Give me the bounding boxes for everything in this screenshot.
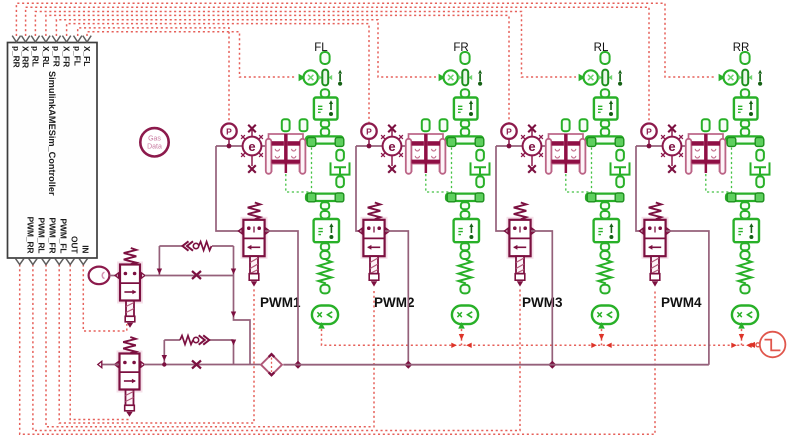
svg-text:PWM_RR: PWM_RR: [26, 217, 36, 254]
svg-text:FL: FL: [314, 42, 328, 54]
junction return line: [548, 361, 556, 369]
wire PWM3 outlet to return line: [531, 231, 552, 365]
wheel station FL green chain: [299, 52, 350, 329]
check valve CV2: [180, 336, 193, 345]
wire V2 tank port: [103, 364, 120, 366]
arrow loop1 right: [231, 269, 236, 275]
svg-text:RR: RR: [733, 42, 750, 54]
wire speed branch RL: [601, 329, 603, 345]
accumulator: [89, 267, 110, 285]
filter: [261, 354, 282, 375]
wire controller-top to X_RL sensor: [35, 12, 576, 78]
wire V2 outlet loop: [144, 340, 260, 365]
svg-text:SimulinkAMESim_Controller: SimulinkAMESim_Controller: [47, 71, 57, 196]
pump unit RL (P gauge, motor, master cylinder): [496, 119, 591, 192]
solenoid valve PWM3: [504, 203, 535, 287]
svg-text:FR: FR: [453, 42, 468, 54]
junction speed bus: [599, 334, 604, 340]
controller block SimulinkAMESim_Controller: [8, 36, 98, 265]
wire controller-top to p_FL gauge: [78, 28, 229, 123]
pump unit RR (P gauge, motor, master cylinder): [636, 119, 731, 192]
solenoid valve PWM4: [639, 203, 670, 287]
wire controller-bottom to PWM4 coil: [20, 265, 655, 435]
junction return line: [404, 361, 412, 369]
svg-text:p_FL: p_FL: [73, 46, 83, 66]
throttle X1: [192, 271, 201, 279]
svg-text:PWM4: PWM4: [661, 295, 702, 310]
svg-text:p_RL: p_RL: [30, 46, 40, 67]
svg-text:PWM_FL: PWM_FL: [59, 218, 69, 253]
svg-text:Data: Data: [147, 144, 162, 151]
signal source vehicle speed: [748, 342, 755, 348]
svg-text:X_FL: X_FL: [82, 46, 92, 66]
arrow loop2: [231, 340, 236, 346]
svg-text:p_RR: p_RR: [11, 46, 21, 68]
junction return line: [294, 361, 302, 369]
wheel station FR green chain: [439, 52, 490, 329]
wire controller-bottom to brake valve V1 coil: [83, 265, 127, 332]
pump unit FL (P gauge, motor, master cylinder): [216, 119, 311, 192]
wire PWM2 outlet to return line: [385, 231, 408, 365]
wire controller-bottom to PWM3 coil: [33, 265, 520, 431]
check valve CV1: [183, 241, 194, 250]
arrow jog: [231, 312, 236, 318]
svg-text:Gas: Gas: [148, 136, 161, 143]
wire speed branch FR: [461, 329, 463, 345]
svg-text:X_RL: X_RL: [41, 46, 51, 67]
wheel station RL green chain: [579, 52, 630, 329]
svg-text:IN: IN: [81, 245, 91, 253]
svg-text:PWM1: PWM1: [260, 295, 301, 310]
junction speed bus: [739, 334, 744, 340]
pressure valve V2: [115, 337, 145, 417]
throttle X2: [192, 361, 201, 369]
gas properties icon Gas Data: [140, 128, 168, 156]
wire accumulator to valve V1: [110, 275, 120, 277]
wire controller-top to X_RR sensor: [16, 3, 716, 77]
wire controller-bottom to brake valve V2 coil: [70, 265, 129, 420]
wire pump feed to PWM3: [496, 146, 509, 231]
wheel station RR green chain: [719, 52, 770, 329]
wire V1 outlet loop: [145, 246, 234, 276]
wire speed branch RR: [741, 329, 743, 345]
wire controller-top to p_RL gauge: [46, 15, 509, 122]
solenoid valve PWM1: [238, 203, 269, 287]
wire loop1 to filter: [234, 276, 251, 365]
wire PWM1 outlet to return line: [265, 231, 298, 365]
wire controller-top to X_FR sensor: [56, 20, 436, 77]
junction speed bus: [459, 334, 464, 340]
wire controller-top to p_FR gauge: [67, 24, 369, 123]
arrow loop1 left: [157, 269, 162, 275]
wire pump feed to PWM1: [216, 146, 243, 231]
wire pump feed to PWM4: [636, 146, 644, 231]
wire controller-top to X_FL sensor: [87, 32, 296, 77]
junction arrow into V2 line: [162, 355, 167, 361]
wire controller-top to p_RR gauge: [26, 7, 649, 122]
wire controller-bottom to PWM2 coil: [46, 265, 374, 427]
svg-text:X_RR: X_RR: [21, 46, 31, 68]
svg-text:p_FR: p_FR: [51, 46, 61, 67]
svg-text:OUT: OUT: [70, 236, 80, 254]
svg-text:X_FR: X_FR: [62, 46, 72, 67]
wire pump feed to PWM2: [356, 146, 363, 231]
wire controller-bottom to PWM1 coil: [59, 265, 254, 424]
pump unit FR (P gauge, motor, master cylinder): [356, 119, 451, 192]
svg-text:PWM3: PWM3: [522, 295, 563, 310]
wire PWM4 outlet to return line: [666, 231, 709, 365]
wire main return line: [283, 364, 709, 366]
solenoid valve PWM2: [358, 203, 389, 287]
wire wheel-speed bus: [322, 329, 747, 345]
pressure valve V1: [115, 248, 145, 328]
svg-text:PWM_FR: PWM_FR: [48, 218, 58, 254]
svg-text:PWM_RL: PWM_RL: [37, 218, 47, 254]
svg-text:RL: RL: [594, 42, 609, 54]
